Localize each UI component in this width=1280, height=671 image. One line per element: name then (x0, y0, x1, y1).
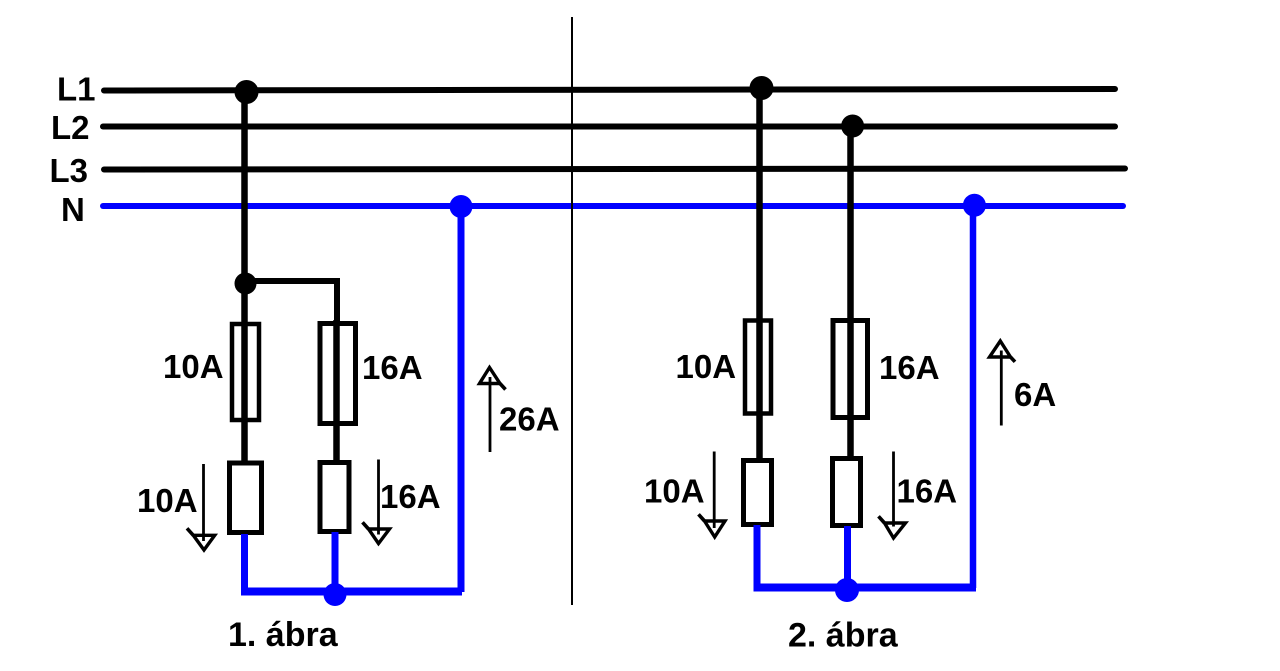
current arrow 10A downward (figure 2 left load) (699, 452, 726, 538)
svg-text:L3: L3 (50, 152, 89, 189)
svg-text:N: N (61, 191, 85, 228)
svg-text:10A: 10A (137, 482, 198, 519)
blue wire from right load to bottom neutral return (figure 2) (844, 526, 851, 587)
junction dot on N (figure 2, blue) (963, 194, 986, 217)
junction dot on L2 (figure 2 tap) (841, 115, 864, 138)
current arrow 16A downward (figure 2 right load) (879, 452, 906, 539)
load resistor right branch (figure 2) (833, 459, 861, 526)
wire through fuse F2 to load (figure 1, right branch) (333, 320, 340, 461)
svg-text:10A: 10A (163, 348, 224, 385)
svg-text:16A: 16A (380, 478, 441, 515)
wire from L2 tap down through fuse F4 to load (figure 2, right branch) (847, 126, 854, 457)
fuse F4 16A (figure 2) (833, 321, 868, 418)
load resistor left branch (figure 2) (744, 461, 772, 525)
svg-text:2. ábra: 2. ábra (788, 617, 899, 655)
blue wire from left load to bottom neutral return (figure 2) (754, 525, 761, 587)
current arrow 16A downward (figure 1 right load) (363, 460, 390, 544)
wire branch from node A to right branch (figure 1) (245, 281, 337, 324)
svg-text:26A: 26A (499, 401, 560, 438)
svg-text:L1: L1 (57, 71, 96, 108)
bus line L3 (104, 169, 1125, 170)
blue junction dot on bottom return (figure 1) (324, 583, 347, 606)
svg-text:6A: 6A (1014, 376, 1056, 413)
svg-text:L2: L2 (51, 109, 90, 146)
junction dot on L1 (figure 2 tap) (750, 76, 774, 100)
svg-text:1. ábra: 1. ábra (228, 616, 339, 654)
svg-text:10A: 10A (676, 348, 737, 385)
svg-text:16A: 16A (362, 349, 423, 386)
load resistor right branch (figure 1) (320, 463, 349, 532)
junction dot node A (branch split, figure 1) (235, 273, 257, 295)
wire from L1 tap down through fuse F3 to load (figure 2, left branch) (756, 88, 763, 459)
current arrow 26A upward (figure 1 neutral) (480, 368, 506, 453)
bus line L2 (103, 124, 1115, 130)
divider line between figures (571, 17, 573, 605)
blue wire from N down to bottom return (figure 1) (458, 206, 465, 592)
svg-text:16A: 16A (897, 473, 958, 510)
svg-text:10A: 10A (644, 473, 705, 510)
bus line L1 (104, 89, 1115, 91)
blue wire from right load to bottom neutral return (figure 1) (332, 532, 339, 592)
blue bottom return wire (figure 1) (241, 588, 462, 596)
bus line N (neutral, blue) (103, 203, 1123, 209)
load resistor left branch (figure 1) (230, 463, 262, 533)
wire from L1 tap down through fuse F1 to load (figure 1, left branch) (241, 91, 248, 462)
current arrow 6A upward (figure 2 neutral) (990, 341, 1016, 426)
blue wire from left load to bottom neutral return (figure 1) (241, 534, 248, 592)
junction dot on L1 (figure 1 tap) (235, 80, 259, 104)
current arrow 10A downward (figure 1 left load) (187, 464, 215, 550)
svg-text:16A: 16A (879, 349, 940, 386)
junction dot on N (figure 1, blue) (450, 195, 473, 218)
fuse F2 16A (figure 1) (320, 324, 356, 424)
blue junction dot on bottom return (figure 2) (835, 578, 859, 602)
fuse F3 10A (figure 2) (745, 321, 771, 414)
blue wire from N down to bottom return (figure 2) (970, 206, 977, 588)
blue bottom return wire (figure 2) (754, 584, 977, 592)
fuse F1 10A (figure 1) (232, 324, 259, 420)
